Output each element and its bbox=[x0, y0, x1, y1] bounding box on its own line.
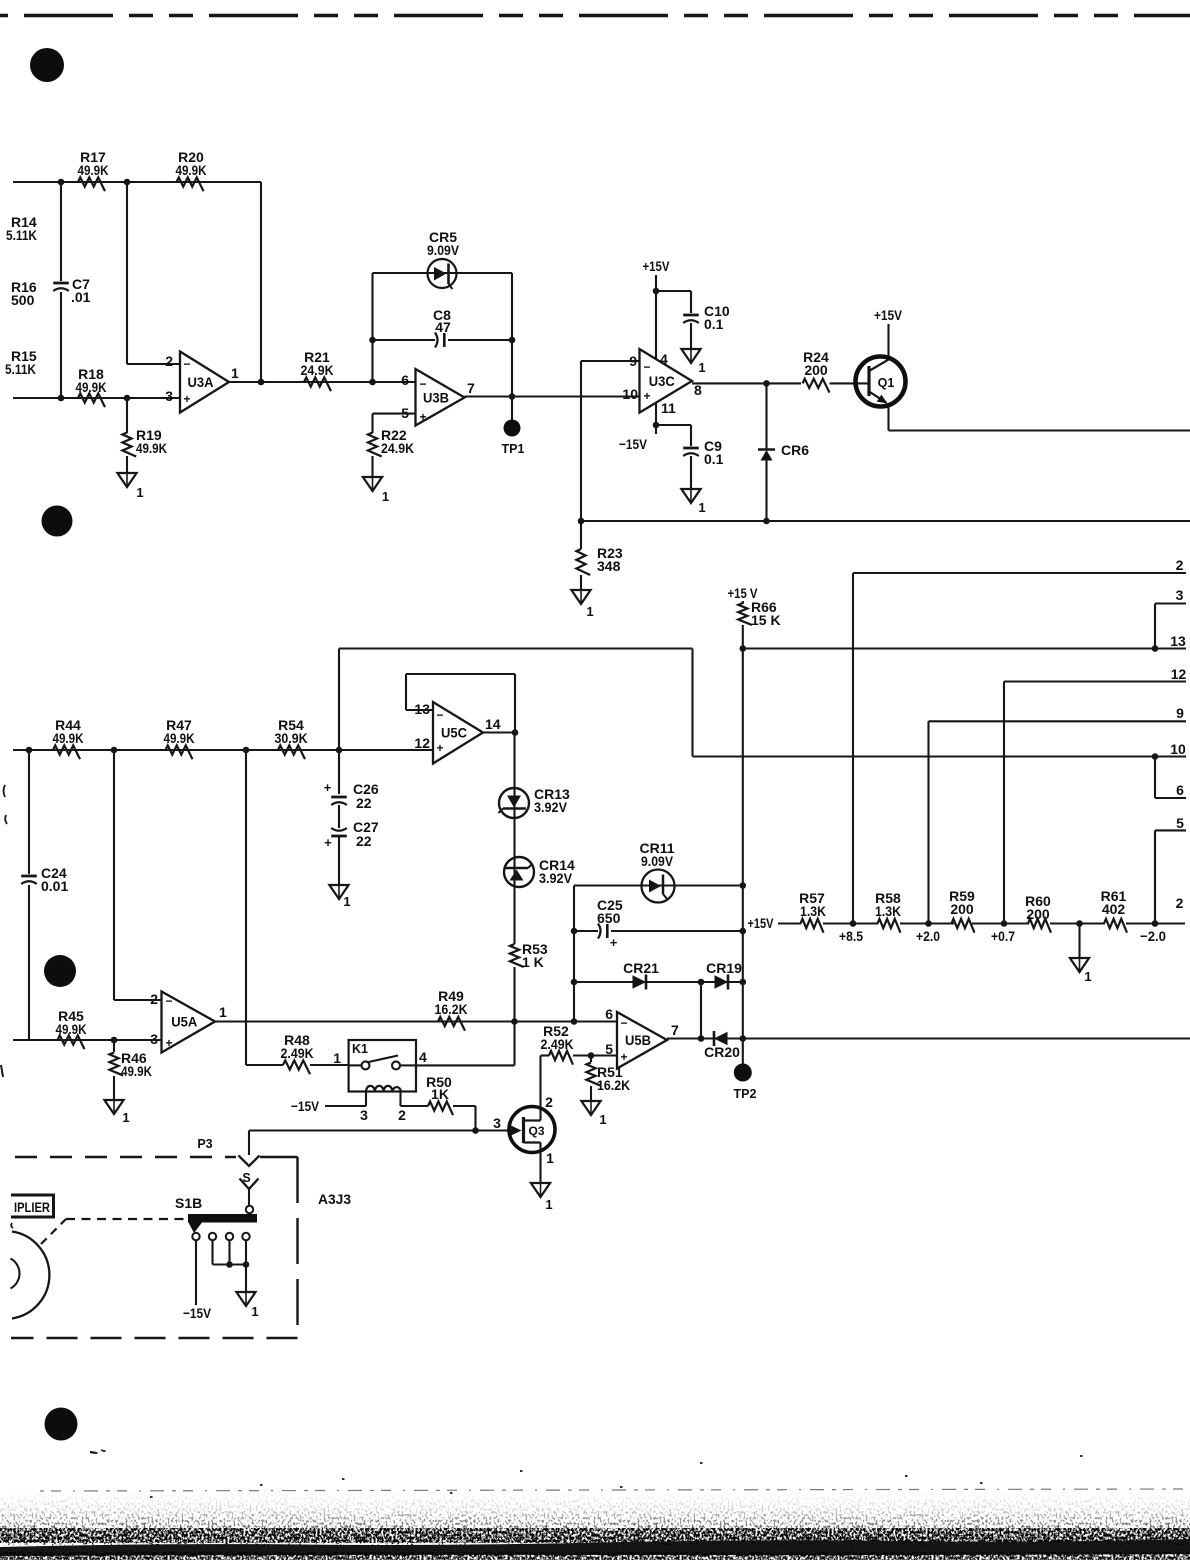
breakdown diode CR14 3.92V bbox=[504, 857, 575, 887]
net label +15V rail bbox=[748, 915, 775, 931]
svg-text:13: 13 bbox=[1170, 633, 1186, 649]
node junction CR11 right bbox=[740, 882, 747, 889]
svg-text:−: − bbox=[183, 357, 190, 371]
op-amp U3A bbox=[165, 352, 239, 413]
svg-text:1.3K: 1.3K bbox=[800, 903, 826, 919]
resistor R50 1K bbox=[401, 1074, 476, 1115]
svg-text:1.3K: 1.3K bbox=[875, 903, 901, 919]
resistor R46 bbox=[109, 1040, 152, 1100]
resistor R18 bbox=[76, 366, 107, 407]
wire top input bus bbox=[13, 181, 261, 183]
svg-text:2.49K: 2.49K bbox=[281, 1045, 314, 1061]
wire middle input bus bbox=[13, 749, 433, 751]
wire net 2 to edge pin 2 bbox=[853, 573, 1186, 924]
scan noise band bbox=[0, 1450, 1190, 1560]
capacitor C27 22 bbox=[324, 819, 379, 885]
dashed enclosure box bbox=[11, 1157, 298, 1338]
resistor R17 bbox=[78, 149, 109, 191]
node -2.0 bbox=[1140, 920, 1166, 944]
svg-text:1: 1 bbox=[1084, 969, 1091, 984]
diode CR20 bbox=[704, 1031, 740, 1060]
node junction TP1 bbox=[509, 393, 516, 400]
wire R20 output branch bbox=[260, 182, 262, 382]
relay K1 bbox=[333, 1040, 427, 1123]
capacitor C10 0.1 bbox=[656, 291, 730, 349]
diode CR5 9.09V feedback bbox=[373, 229, 513, 289]
svg-text:1: 1 bbox=[586, 604, 593, 619]
svg-text:1: 1 bbox=[546, 1150, 554, 1166]
node junction CR19 right bbox=[740, 979, 747, 986]
svg-text:P3: P3 bbox=[197, 1137, 212, 1151]
svg-text:30.9K: 30.9K bbox=[275, 730, 308, 746]
resistor R59 200 bbox=[949, 888, 975, 933]
node junction pin6 stub on net 10 bbox=[1152, 753, 1159, 760]
node junction U5B output / CR20 bbox=[698, 1035, 705, 1042]
node junction C24 top bbox=[26, 747, 33, 754]
node junction CR6 bottom bbox=[763, 518, 770, 525]
pin label 3 bbox=[1176, 587, 1184, 603]
node junction CR19/CR21/CR20 bbox=[698, 979, 705, 986]
rotary switch arc outer (clipped) bbox=[12, 1232, 49, 1319]
resistor R54 bbox=[275, 717, 308, 759]
svg-text:1: 1 bbox=[599, 1112, 606, 1127]
node +0.7 bbox=[991, 920, 1015, 944]
svg-text:0.1: 0.1 bbox=[704, 316, 724, 332]
svg-text:.01: .01 bbox=[71, 289, 91, 305]
ground below S1B common bbox=[236, 1265, 258, 1320]
page top dashed border bbox=[0, 14, 1190, 17]
resistor R49 16.2K bbox=[435, 988, 468, 1031]
svg-text:49.9K: 49.9K bbox=[136, 440, 167, 456]
wire CR junction to U5B output bbox=[700, 982, 702, 1039]
svg-text:1: 1 bbox=[545, 1197, 552, 1212]
svg-text:1 K: 1 K bbox=[522, 954, 544, 970]
svg-text:U5B: U5B bbox=[625, 1033, 651, 1048]
pin label 6 bbox=[1176, 782, 1184, 798]
svg-text:3: 3 bbox=[1176, 587, 1184, 603]
node junction C25 right bbox=[740, 928, 747, 935]
resistor R60 200 bbox=[1025, 893, 1051, 933]
svg-text:49.9K: 49.9K bbox=[164, 730, 195, 746]
svg-text:5: 5 bbox=[1176, 815, 1184, 831]
resistor R24 200 bbox=[803, 349, 870, 393]
diode CR19 bbox=[706, 960, 742, 990]
capacitor C25 650 bbox=[574, 897, 743, 950]
svg-text:U3A: U3A bbox=[188, 375, 214, 390]
op-amp U5B bbox=[605, 1006, 679, 1069]
wire U5A pin2 branch bbox=[114, 750, 162, 1000]
connector P3 bbox=[197, 1131, 259, 1167]
breakdown diode CR13 3.92V bbox=[499, 786, 571, 818]
svg-text:+: + bbox=[324, 835, 332, 850]
node junction pin3 stub on net 13 bbox=[1152, 645, 1159, 652]
resistor R47 bbox=[164, 717, 195, 759]
ground below C27 bbox=[329, 885, 350, 909]
svg-text:+: + bbox=[183, 392, 190, 406]
svg-text:A3J3: A3J3 bbox=[318, 1191, 351, 1207]
svg-text:200: 200 bbox=[804, 362, 828, 378]
svg-text:3: 3 bbox=[360, 1107, 368, 1123]
svg-text:0.01: 0.01 bbox=[41, 878, 68, 894]
capacitor C24 0.01 bbox=[21, 750, 68, 1040]
resistor R52 2.49K bbox=[541, 1023, 618, 1065]
switch wiper S bbox=[240, 1171, 259, 1213]
op-amp U3C bbox=[622, 349, 702, 416]
svg-text:+15V: +15V bbox=[643, 258, 671, 274]
switch S1B wafer bbox=[175, 1195, 257, 1233]
transistor Q1 bbox=[856, 357, 906, 407]
registration dot 4 bbox=[45, 1408, 78, 1441]
test point TP1 bbox=[502, 397, 525, 457]
registration dot 1 bbox=[30, 48, 64, 82]
svg-text:1K: 1K bbox=[431, 1086, 449, 1102]
resistor R58 1.3K bbox=[875, 890, 901, 933]
ground below rail bbox=[1070, 924, 1092, 985]
svg-text:9.09V: 9.09V bbox=[641, 853, 674, 869]
wire gate bus from P3 bbox=[249, 1129, 511, 1131]
svg-text:12: 12 bbox=[414, 735, 430, 751]
resistor R21 bbox=[301, 349, 334, 391]
node junction top wire / C7 bbox=[58, 179, 65, 186]
svg-text:11: 11 bbox=[661, 400, 676, 416]
node junction R46 bbox=[111, 1037, 118, 1044]
svg-text:+2.0: +2.0 bbox=[916, 928, 940, 944]
wire stub pin 3 bbox=[1155, 604, 1186, 649]
wire net 13 from R66 to edge pin 13 bbox=[743, 647, 1186, 649]
resistor R22 bbox=[368, 414, 416, 477]
svg-text:−2.0: −2.0 bbox=[1140, 928, 1166, 944]
svg-text:200: 200 bbox=[950, 901, 974, 917]
svg-text:+: + bbox=[610, 935, 618, 950]
node junction U3B pin6 feedback bbox=[369, 379, 376, 386]
resistor R44 bbox=[53, 717, 84, 759]
wire second input bus bbox=[13, 397, 180, 399]
svg-text:402: 402 bbox=[1102, 901, 1126, 917]
svg-text:3: 3 bbox=[165, 388, 173, 404]
label R16 value (off-page left) bbox=[11, 279, 37, 308]
svg-text:−15V: −15V bbox=[291, 1098, 320, 1114]
wire U5A pin3 bus bbox=[13, 1039, 162, 1041]
scan speck marks bbox=[1, 785, 104, 1453]
svg-text:5.11K: 5.11K bbox=[5, 361, 36, 377]
node junction R48 branch bbox=[243, 747, 250, 754]
resistor R57 1.3K bbox=[799, 890, 826, 933]
wire R50 to Q3 gate bbox=[474, 1106, 476, 1131]
resistor R19 bbox=[122, 398, 167, 473]
svg-text:6: 6 bbox=[401, 372, 409, 388]
svg-text:49.9K: 49.9K bbox=[78, 162, 109, 178]
svg-text:CR21: CR21 bbox=[623, 960, 659, 976]
svg-text:K1: K1 bbox=[352, 1042, 368, 1056]
node junction C26 net bbox=[336, 747, 343, 754]
registration dot 2 bbox=[42, 506, 73, 537]
wire U5A output to U5B pin6 bbox=[215, 1020, 617, 1022]
svg-text:TP1: TP1 bbox=[502, 442, 525, 456]
svg-text:5.11K: 5.11K bbox=[6, 227, 37, 243]
svg-text:22: 22 bbox=[356, 833, 372, 849]
svg-text:12: 12 bbox=[1171, 666, 1187, 682]
resistor R23 348 bbox=[576, 521, 622, 590]
capacitor C8 47 feedback bbox=[373, 307, 513, 348]
svg-text:1: 1 bbox=[382, 489, 389, 504]
wire Q3 drain to R52 bbox=[541, 1056, 550, 1121]
node junction contact3 common bbox=[226, 1261, 233, 1268]
wire U3B feedback right vertical bbox=[511, 273, 513, 397]
svg-text:1: 1 bbox=[251, 1304, 258, 1319]
svg-text:−: − bbox=[165, 994, 172, 1008]
svg-text:49.9K: 49.9K bbox=[53, 730, 84, 746]
ground below R23 bbox=[571, 590, 593, 619]
ground below C10 bbox=[681, 349, 705, 375]
wire U3B feedback left vertical bbox=[371, 273, 373, 382]
wire stub pin 5 bbox=[1155, 830, 1186, 923]
test point TP2 bbox=[734, 1039, 757, 1102]
svg-text:Q1: Q1 bbox=[878, 376, 895, 390]
svg-text:7: 7 bbox=[467, 380, 475, 396]
ground below Q3 bbox=[531, 1183, 553, 1212]
svg-text:1: 1 bbox=[698, 360, 705, 375]
svg-text:49.9K: 49.9K bbox=[76, 379, 107, 395]
svg-text:24.9K: 24.9K bbox=[301, 362, 334, 378]
svg-text:+0.7: +0.7 bbox=[991, 928, 1015, 944]
ground below R19 bbox=[117, 473, 143, 500]
svg-text:−15V: −15V bbox=[619, 436, 648, 452]
svg-text:−: − bbox=[436, 708, 443, 722]
node junction Q3 gate bbox=[472, 1127, 479, 1134]
wire U3B output to U3C pin10 bbox=[465, 395, 640, 397]
node junction rail ground bbox=[1076, 920, 1083, 927]
wire R48 branch vertical bbox=[246, 750, 283, 1065]
node junction contact4 common bbox=[243, 1261, 250, 1268]
svg-text:4: 4 bbox=[419, 1049, 427, 1065]
node junction TP2 bbox=[740, 1035, 747, 1042]
svg-text:16.2K: 16.2K bbox=[435, 1001, 468, 1017]
svg-text:3.92V: 3.92V bbox=[539, 870, 573, 886]
diode CR21 bbox=[623, 960, 659, 990]
S1B contact 1 bbox=[192, 1233, 199, 1240]
svg-text:348: 348 bbox=[597, 558, 621, 574]
svg-text:U5A: U5A bbox=[171, 1015, 197, 1030]
svg-text:U3C: U3C bbox=[649, 374, 675, 389]
svg-text:49.9K: 49.9K bbox=[176, 162, 207, 178]
wire K1 pin4 to R49 net bbox=[416, 1022, 515, 1066]
resistor R48 2.49K bbox=[281, 1032, 349, 1074]
label R14 value (off-page left) bbox=[6, 214, 37, 243]
wire S1B contacts 2-4 common bbox=[213, 1240, 247, 1264]
svg-text:15 K: 15 K bbox=[751, 612, 781, 628]
resistor R45 bbox=[56, 1008, 87, 1049]
wire U3A pin2 branch bbox=[127, 182, 180, 364]
power +15V to U3C pin4 bbox=[643, 258, 671, 359]
svg-text:−15V: −15V bbox=[183, 1305, 212, 1321]
svg-text:9: 9 bbox=[629, 353, 637, 369]
wire C26/C27 vertical bbox=[338, 649, 340, 795]
wire U5B output to right edge bbox=[667, 1037, 1190, 1039]
svg-text:Q3: Q3 bbox=[528, 1124, 544, 1138]
svg-text:2.49K: 2.49K bbox=[541, 1036, 574, 1052]
svg-text:U5C: U5C bbox=[441, 726, 467, 741]
node junction CR21 left bbox=[571, 979, 578, 986]
transistor Q3 (FET) bbox=[493, 1094, 555, 1166]
power +15 V to R66 bbox=[728, 585, 759, 604]
wire net A to net 10 jog bbox=[339, 647, 693, 649]
ground below R46 bbox=[104, 1100, 129, 1125]
svg-text:2: 2 bbox=[1176, 557, 1184, 573]
wire U5C feedback loop bbox=[406, 674, 515, 733]
svg-text:49.9K: 49.9K bbox=[121, 1063, 152, 1079]
label A3J3 bbox=[318, 1191, 351, 1207]
registration dot 3 bbox=[44, 955, 76, 987]
capacitor C9 0.1 bbox=[656, 425, 724, 489]
node +8.5 bbox=[839, 920, 863, 944]
power +15V to Q1 collector bbox=[874, 307, 903, 357]
label R15 value (off-page left) bbox=[5, 348, 37, 377]
breakdown diode CR11 9.09V bbox=[574, 840, 743, 903]
svg-text:U3B: U3B bbox=[423, 391, 449, 406]
wire lower bus to right edge bbox=[581, 520, 1190, 522]
svg-text:5: 5 bbox=[605, 1041, 613, 1057]
svg-text:500: 500 bbox=[11, 292, 35, 308]
wire CR chain vertical bbox=[573, 886, 575, 1022]
node junction U5C output bbox=[512, 729, 519, 736]
wire U5C output down chain bbox=[483, 733, 515, 790]
wire CR21/CR19 bus bbox=[574, 981, 743, 983]
svg-text:2: 2 bbox=[398, 1107, 406, 1123]
svg-text:10: 10 bbox=[622, 386, 638, 402]
svg-text:1: 1 bbox=[219, 1004, 227, 1020]
svg-text:IPLIER: IPLIER bbox=[14, 1199, 50, 1215]
svg-text:9.09V: 9.09V bbox=[427, 242, 460, 258]
power -15V to K1 coil pin3 bbox=[291, 1098, 366, 1114]
node junction R53 / K1 pin4 branch bbox=[511, 1018, 518, 1025]
node junction CR6 bbox=[763, 380, 770, 387]
svg-text:6: 6 bbox=[1176, 782, 1184, 798]
wire S1B contact1 to -15V bbox=[183, 1240, 212, 1321]
svg-text:TP2: TP2 bbox=[734, 1087, 757, 1101]
wire Q3 source to ground bbox=[539, 1143, 541, 1184]
svg-text:CR19: CR19 bbox=[706, 960, 742, 976]
node junction C10 branch bbox=[653, 288, 660, 295]
svg-text:+: + bbox=[620, 1050, 627, 1064]
svg-text:+: + bbox=[165, 1036, 172, 1050]
svg-text:+: + bbox=[324, 780, 332, 795]
svg-text:9: 9 bbox=[1176, 705, 1184, 721]
pin label 10 bbox=[1170, 741, 1186, 757]
wire Q1 emitter to right edge bbox=[889, 405, 1190, 431]
svg-text:200: 200 bbox=[1026, 906, 1050, 922]
svg-text:−: − bbox=[643, 360, 650, 374]
svg-text:CR6: CR6 bbox=[781, 442, 809, 458]
svg-text:1: 1 bbox=[122, 1110, 129, 1125]
op-amp U5C bbox=[414, 701, 500, 764]
ground below R51 bbox=[581, 1101, 606, 1127]
pin label 2 bbox=[1176, 557, 1184, 573]
svg-text:4: 4 bbox=[660, 351, 668, 367]
pin label 5 bbox=[1176, 815, 1184, 831]
svg-text:+15V: +15V bbox=[874, 307, 903, 323]
capacitor C26 22 bbox=[324, 780, 379, 828]
node junction pin9 bus bbox=[578, 518, 585, 525]
power -15V to U3C pin11 bbox=[619, 403, 656, 452]
svg-text:16.2K: 16.2K bbox=[597, 1077, 630, 1093]
pin label 12 bbox=[1171, 666, 1187, 682]
svg-text:22: 22 bbox=[356, 795, 372, 811]
resistor R20 bbox=[176, 149, 207, 191]
ground below C9 bbox=[681, 489, 705, 515]
svg-text:10: 10 bbox=[1170, 741, 1186, 757]
svg-text:+: + bbox=[643, 389, 650, 403]
node junction U5A pin2 branch bbox=[111, 747, 118, 754]
svg-text:−: − bbox=[419, 377, 426, 391]
op-amp U3B bbox=[401, 369, 475, 426]
svg-text:1: 1 bbox=[136, 485, 143, 500]
svg-text:S1B: S1B bbox=[175, 1195, 202, 1211]
node junction C25 left bbox=[571, 928, 578, 935]
capacitor C7 bbox=[53, 182, 90, 398]
svg-text:+: + bbox=[419, 410, 426, 424]
node +2.0 bbox=[916, 920, 940, 944]
node junction C9 branch bbox=[653, 422, 660, 429]
svg-text:+: + bbox=[436, 741, 443, 755]
svg-text:6: 6 bbox=[605, 1006, 613, 1022]
S1B contact 4 bbox=[242, 1233, 249, 1240]
svg-text:1: 1 bbox=[231, 365, 239, 381]
pin label 13 bbox=[1170, 633, 1186, 649]
wire +15V divider rail bbox=[778, 922, 1185, 924]
wire CR13 to CR14 bbox=[513, 818, 515, 858]
svg-text:1: 1 bbox=[698, 500, 705, 515]
label box MULTIPLIER (clipped) bbox=[11, 1194, 54, 1219]
ground below R22 bbox=[363, 477, 389, 504]
S1B contact 3 bbox=[226, 1233, 233, 1240]
svg-text:650: 650 bbox=[597, 910, 621, 926]
diode CR6 bbox=[758, 383, 809, 521]
wire U3C output bbox=[692, 382, 801, 384]
wire U3C pin9 bbox=[581, 361, 640, 521]
mechanical linkage dashed bbox=[41, 1219, 187, 1244]
node junction R18 / R19 / U3A pin3 bbox=[124, 395, 131, 402]
svg-text:3.92V: 3.92V bbox=[534, 799, 568, 815]
svg-text:2: 2 bbox=[165, 353, 173, 369]
node junction R18 / C7 bottom bbox=[58, 395, 65, 402]
wire U3A output to U3B pin6 bbox=[229, 381, 416, 383]
rotary switch arc inner (clipped) bbox=[11, 1259, 20, 1289]
wire stub pin 6 bbox=[1155, 757, 1186, 799]
svg-text:14: 14 bbox=[485, 716, 501, 732]
op-amp U5A bbox=[150, 991, 227, 1053]
svg-text:3: 3 bbox=[493, 1115, 501, 1131]
S1B contact 2 bbox=[209, 1233, 216, 1240]
resistor R53 1K bbox=[510, 887, 548, 1022]
svg-text:1: 1 bbox=[343, 894, 350, 909]
svg-text:+15V: +15V bbox=[748, 915, 775, 931]
svg-text:49.9K: 49.9K bbox=[56, 1021, 87, 1037]
node junction C8 left bbox=[369, 337, 376, 344]
wire net 10 to edge pin 10 bbox=[693, 649, 1187, 757]
svg-text:+8.5: +8.5 bbox=[839, 928, 863, 944]
svg-text:24.9K: 24.9K bbox=[381, 440, 414, 456]
node junction C8 right bbox=[509, 337, 516, 344]
wire net 9 to edge pin 9 bbox=[929, 721, 1187, 923]
svg-text:7: 7 bbox=[671, 1022, 679, 1038]
node junction U3A output / R20 bbox=[258, 379, 265, 386]
pin label 2 lower bbox=[1176, 895, 1184, 911]
node junction R51 bbox=[588, 1052, 595, 1059]
svg-text:1: 1 bbox=[333, 1050, 341, 1066]
wire net 12 to edge pin 12 bbox=[1004, 682, 1186, 924]
resistor R66 15 K bbox=[738, 599, 780, 628]
svg-text:CR20: CR20 bbox=[704, 1044, 740, 1060]
